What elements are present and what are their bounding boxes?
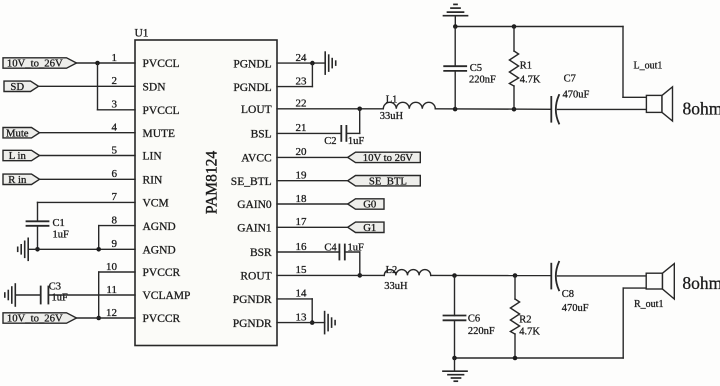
wire pin 14 PGNDR stub — [277, 298, 312, 300]
svg-text:C7: C7 — [564, 74, 576, 85]
junction R2 top — [513, 273, 518, 278]
speaker LS (right channel) — [646, 273, 662, 289]
svg-text:4.7K: 4.7K — [519, 327, 540, 338]
svg-text:10V to 26V: 10V to 26V — [363, 152, 414, 164]
wire SD port to pin 2 — [39, 85, 136, 87]
wire C6 branch upper — [454, 276, 456, 316]
svg-text:U1: U1 — [135, 28, 149, 40]
svg-text:Mute: Mute — [6, 127, 29, 139]
svg-text:1uF: 1uF — [348, 136, 365, 147]
svg-text:1uF: 1uF — [53, 230, 70, 241]
junction C5 branch — [453, 107, 458, 112]
svg-text:11: 11 — [106, 284, 117, 296]
earth ground (bottom) — [454, 358, 456, 371]
port 10V_to_26V (to pin 12) — [3, 313, 77, 323]
wire C4 to ROUT junction — [345, 251, 360, 253]
resistor R1 — [513, 27, 515, 52]
wire C5 branch lower — [454, 71, 456, 109]
svg-text:1: 1 — [112, 52, 118, 64]
svg-text:PVCCL: PVCCL — [143, 58, 180, 70]
wire C2 to LOUT junction — [346, 132, 359, 134]
wire pin 13 PGNDR to ground — [277, 322, 325, 324]
svg-text:10V_to_26V: 10V_to_26V — [7, 58, 63, 70]
IC U1 PAM8124 body — [135, 40, 277, 346]
capacitor C3 — [40, 287, 42, 304]
svg-text:SE_BTL: SE_BTL — [369, 175, 407, 187]
junction node pin1/pin3 feed — [95, 61, 100, 66]
svg-text:C8: C8 — [562, 289, 574, 300]
svg-text:VCLAMP: VCLAMP — [143, 290, 191, 302]
ground symbol (right of pin 13) — [324, 312, 326, 334]
svg-text:33uH: 33uH — [380, 111, 404, 122]
svg-text:470uF: 470uF — [562, 303, 589, 314]
wire pin 8 down to pin 9 — [98, 226, 100, 250]
inductor L2 — [384, 270, 430, 276]
port G1 (pin 17) — [348, 222, 384, 232]
svg-text:G0: G0 — [363, 199, 376, 211]
svg-text:GAIN0: GAIN0 — [237, 199, 272, 211]
svg-text:R in: R in — [8, 174, 27, 186]
junction pin24/pin23 — [310, 61, 315, 66]
wire pin 8 AGND stub — [99, 225, 135, 227]
junction top rail / R1 — [512, 24, 517, 29]
svg-text:C4: C4 — [324, 243, 337, 254]
svg-text:BSL: BSL — [251, 129, 272, 141]
port R_in (to pin 6) — [3, 174, 40, 184]
wire pin 20 AVCC to port — [277, 156, 348, 158]
svg-text:10: 10 — [106, 261, 118, 273]
svg-text:L2: L2 — [386, 265, 398, 276]
svg-text:15: 15 — [296, 264, 308, 276]
svg-text:SDN: SDN — [143, 82, 167, 94]
svg-text:PGNDR: PGNDR — [233, 294, 272, 306]
wire junction down to pin 3 — [97, 63, 99, 110]
wire ground to C3 — [15, 294, 40, 296]
svg-text:24: 24 — [296, 52, 308, 64]
wire C7 to speaker — [558, 108, 647, 110]
svg-text:L in: L in — [9, 150, 27, 162]
wire port to pin 1 — [77, 62, 136, 64]
port SE_BTL (pin 19) — [348, 176, 421, 186]
svg-text:4: 4 — [112, 122, 118, 134]
ground symbol (left of C3) — [14, 284, 16, 306]
port 10V_to_26V (to pin 1) — [3, 58, 77, 68]
wire pin 17 to port — [277, 226, 348, 228]
junction pin8/pin9 — [96, 247, 101, 252]
wire C5 branch upper — [454, 27, 456, 67]
svg-text:C3: C3 — [49, 281, 61, 292]
wire C1 to AGND row — [37, 226, 39, 250]
wire ground stub to top rail — [454, 16, 456, 27]
svg-text:RIN: RIN — [143, 175, 164, 187]
capacitor C8 plate — [550, 264, 552, 289]
capacitor C6 — [444, 315, 466, 317]
capacitor C8 curved plate — [556, 262, 559, 291]
capacitor C2 — [340, 126, 342, 141]
svg-text:470uF: 470uF — [563, 90, 590, 101]
junction LOUT/C2 bootstrap — [357, 107, 362, 112]
junction ROUT/C4 — [358, 273, 363, 278]
svg-text:AGND: AGND — [143, 221, 176, 233]
capacitor C7 plate — [550, 97, 552, 122]
svg-text:9: 9 — [112, 238, 118, 250]
svg-text:21: 21 — [296, 122, 307, 134]
svg-text:PVCCR: PVCCR — [143, 313, 181, 325]
svg-text:6: 6 — [112, 168, 118, 180]
port 10V to 26V (AVCC pin 20) — [348, 152, 421, 162]
wire R_in port to pin 6 — [40, 178, 136, 180]
svg-text:22: 22 — [296, 98, 307, 110]
svg-text:C2: C2 — [324, 136, 336, 147]
svg-text:19: 19 — [296, 170, 308, 182]
svg-text:PAM8124: PAM8124 — [204, 151, 221, 214]
svg-text:MUTE: MUTE — [143, 128, 176, 140]
junction R1 bottom — [512, 107, 517, 112]
wire C8 to speaker — [558, 275, 647, 277]
wire VCM down to C1 — [37, 202, 39, 221]
svg-text:18: 18 — [296, 193, 308, 205]
svg-text:10V_to_26V: 10V_to_26V — [7, 313, 63, 325]
wire pin 14 down to pin 13 — [311, 299, 313, 323]
svg-text:L1: L1 — [386, 95, 398, 106]
svg-text:LIN: LIN — [143, 151, 163, 163]
junction C6 branch — [452, 273, 457, 278]
svg-text:12: 12 — [106, 307, 117, 319]
bottom rail wire — [455, 357, 624, 359]
wire speaker to bottom rail — [623, 287, 646, 289]
wire pin 19 to port — [277, 180, 348, 182]
svg-text:13: 13 — [296, 311, 308, 323]
svg-text:PVCCL: PVCCL — [143, 105, 180, 117]
junction bottom rail / R2 — [513, 356, 518, 361]
wire L2 to C8 — [431, 274, 552, 276]
wire pin 10 down to pin 12 — [98, 272, 100, 318]
port L_in (to pin 5) — [3, 150, 40, 160]
junction pin10/pin12 — [96, 316, 101, 321]
svg-text:LOUT: LOUT — [241, 104, 272, 116]
wire pin 10 PVCCR stub — [99, 271, 135, 273]
svg-text:16: 16 — [296, 241, 308, 253]
port Mute (to pin 4) — [3, 128, 40, 138]
svg-text:VCM: VCM — [143, 198, 169, 210]
wire L1 to C7 — [435, 108, 551, 111]
inductor L1 — [383, 102, 435, 109]
svg-text:SE_BTL: SE_BTL — [231, 176, 272, 188]
capacitor C5 — [444, 65, 466, 67]
svg-text:AGND: AGND — [143, 245, 176, 257]
wire pin 24 PGNDL to ground — [277, 62, 325, 64]
capacitor C1 — [27, 220, 49, 222]
ground symbol (right of pin 24) — [324, 52, 326, 74]
wire pin 23 stub — [277, 86, 312, 88]
speaker LS (left channel) — [646, 95, 662, 112]
svg-text:ROUT: ROUT — [240, 271, 271, 283]
svg-text:1uF: 1uF — [52, 293, 69, 304]
wire pin 23 up to pin 24 — [311, 63, 313, 87]
wire C6 branch lower — [454, 320, 456, 358]
svg-text:8ohm: 8ohm — [683, 98, 720, 118]
svg-text:33uH: 33uH — [384, 281, 408, 292]
wire port to pin 12 — [77, 317, 136, 319]
wire pin 18 to port — [277, 203, 348, 205]
svg-text:PGNDL: PGNDL — [233, 58, 271, 70]
svg-text:AVCC: AVCC — [241, 153, 272, 165]
wire Mute port to pin 4 — [40, 132, 136, 134]
wire ground to pin 9 — [28, 248, 135, 250]
junction C1/ground/pin9 — [35, 247, 40, 252]
wire C3 to pin 11 VCLAMP — [48, 294, 135, 296]
svg-text:PVCCR: PVCCR — [143, 267, 181, 279]
wire pin 15 ROUT to L2 — [277, 274, 384, 276]
junction pin13/pin14 — [310, 320, 315, 325]
svg-text:2: 2 — [112, 75, 118, 87]
wire pin 16 BSR to C4 — [277, 251, 339, 253]
capacitor C7 curved plate — [556, 95, 559, 124]
svg-text:220nF: 220nF — [469, 75, 496, 86]
svg-text:R1: R1 — [520, 61, 532, 72]
wire pin 22 LOUT to L1 — [277, 108, 383, 110]
svg-text:L_out1: L_out1 — [634, 61, 663, 72]
earth ground (top) — [444, 15, 468, 17]
svg-text:C6: C6 — [468, 314, 480, 325]
wire to pin 3 — [98, 109, 136, 111]
svg-text:C1: C1 — [53, 218, 65, 229]
junction top rail / C5 — [453, 24, 458, 29]
svg-text:5: 5 — [112, 144, 118, 156]
IC U1 part number label PAM8124 (rotated) — [204, 151, 221, 214]
svg-text:220nF: 220nF — [468, 326, 495, 337]
junction bottom rail / C6 — [452, 356, 457, 361]
port SD (to pin 2) — [4, 81, 39, 91]
svg-text:GAIN1: GAIN1 — [237, 223, 272, 235]
ground symbol (left of pin 9) — [27, 238, 29, 260]
svg-text:C5: C5 — [470, 63, 482, 74]
svg-text:14: 14 — [296, 288, 308, 300]
svg-text:R2: R2 — [519, 315, 531, 326]
wire pin 21 BSL to C2 — [277, 132, 341, 134]
svg-text:7: 7 — [112, 191, 118, 203]
capacitor C4 — [338, 245, 340, 260]
svg-text:23: 23 — [296, 75, 308, 87]
wire top rail down to speaker — [622, 27, 624, 98]
svg-text:R_out1: R_out1 — [634, 299, 663, 310]
svg-text:20: 20 — [296, 146, 308, 158]
svg-text:PGNDL: PGNDL — [233, 82, 271, 94]
svg-text:8: 8 — [112, 214, 118, 226]
svg-text:G1: G1 — [363, 222, 376, 234]
svg-text:8ohm: 8ohm — [682, 273, 720, 293]
wire L_in port to pin 5 — [40, 155, 136, 157]
svg-text:17: 17 — [296, 216, 308, 228]
svg-text:PGNDR: PGNDR — [233, 318, 272, 330]
svg-text:SD: SD — [10, 81, 24, 93]
resistor R2 — [514, 276, 516, 300]
wire pin 7 VCM to C1 branch — [38, 201, 136, 203]
port G0 (pin 18) — [348, 199, 384, 209]
svg-text:3: 3 — [112, 99, 118, 111]
svg-text:BSR: BSR — [250, 247, 272, 259]
top rail wire — [455, 26, 623, 28]
svg-text:4.7K: 4.7K — [520, 74, 541, 85]
